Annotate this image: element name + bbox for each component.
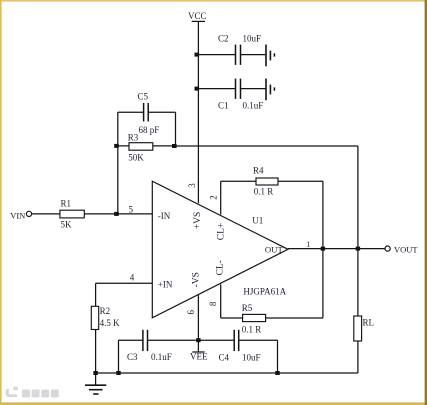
- svg-text:R1: R1: [61, 199, 72, 209]
- svg-text:U1: U1: [252, 216, 263, 226]
- wire bottom ground rail: [96, 372, 358, 374]
- svg-text:R2: R2: [100, 306, 111, 316]
- resistor RL: [354, 316, 362, 341]
- svg-text:RL: RL: [363, 317, 375, 327]
- junction VEE cap rail: [196, 338, 200, 342]
- border frame left: [0, 0, 2, 405]
- svg-text:10uF: 10uF: [243, 34, 262, 44]
- terminal VOUT circle: [385, 246, 390, 251]
- wire output to VOUT: [288, 248, 385, 250]
- wire R3 horizontal: [118, 145, 176, 147]
- resistor R4: [256, 178, 278, 185]
- svg-text:C4: C4: [219, 353, 230, 363]
- wire R2 vertical bottom: [95, 330, 97, 374]
- svg-text:VCC: VCC: [188, 11, 207, 21]
- svg-text:C5: C5: [138, 92, 149, 102]
- wire C1 branch right to ground: [241, 88, 266, 90]
- svg-text:0.1uF: 0.1uF: [243, 101, 264, 111]
- wire C5 top rail left: [118, 111, 144, 113]
- resistor R5: [243, 314, 266, 321]
- svg-text:VEE: VEE: [190, 352, 208, 362]
- resistor R2: [91, 306, 98, 329]
- junction VIN R1 node: [114, 212, 119, 216]
- wire C3 line left: [119, 339, 143, 341]
- wire pin 4 horizontal: [96, 282, 153, 284]
- capacitor C2 plates: [235, 45, 237, 65]
- svg-text:HJGPA61A: HJGPA61A: [243, 287, 286, 297]
- svg-text:-VS: -VS: [191, 272, 201, 287]
- wire decoupling riser left: [118, 340, 120, 373]
- svg-text:VIN: VIN: [10, 211, 25, 221]
- svg-text:C3: C3: [127, 352, 138, 362]
- svg-text:R5: R5: [242, 303, 253, 313]
- svg-text:2: 2: [209, 195, 219, 200]
- wire C4 riser right: [277, 340, 279, 373]
- svg-text:5K: 5K: [61, 219, 73, 229]
- wire RL vertical: [357, 249, 359, 373]
- wire C5 top rail right: [148, 111, 175, 113]
- wire pin 6 VEE vertical: [197, 294, 199, 352]
- wire feedback horizontal: [176, 145, 358, 147]
- svg-text:4.5 K: 4.5 K: [100, 318, 121, 328]
- svg-text:68 pF: 68 pF: [139, 125, 160, 135]
- svg-text:OUT: OUT: [265, 244, 284, 254]
- svg-text:R3: R3: [128, 133, 139, 143]
- capacitor C5 plates: [143, 103, 145, 122]
- svg-text:0.1uF: 0.1uF: [151, 352, 172, 362]
- svg-text:+IN: +IN: [158, 279, 173, 289]
- svg-text:0.1 R: 0.1 R: [242, 324, 262, 334]
- border frame top: [0, 0, 427, 2]
- junction C2 tap: [195, 53, 200, 57]
- junction cap riser bottom: [116, 371, 120, 375]
- junction R3 left: [114, 144, 119, 148]
- svg-text:5: 5: [129, 205, 134, 215]
- wire C4 right segment: [239, 339, 278, 341]
- svg-text:VOUT: VOUT: [394, 244, 418, 254]
- svg-text:C1: C1: [218, 101, 229, 111]
- resistor R1: [60, 210, 84, 218]
- wire C2 branch right to ground: [241, 54, 266, 56]
- junction R3 right feedback: [172, 144, 177, 148]
- capacitor C3 plates: [142, 330, 144, 351]
- svg-text:+VS: +VS: [193, 212, 203, 230]
- border frame right: [425, 0, 427, 405]
- svg-text:1: 1: [306, 240, 310, 249]
- wire R4 rail: [221, 180, 323, 182]
- wire C3 to C4 segment: [148, 339, 234, 341]
- wire R2 vertical top: [95, 283, 97, 306]
- svg-text:CL-: CL-: [216, 260, 226, 275]
- resistor R3: [129, 143, 153, 151]
- wire rail right vertical: [322, 181, 324, 318]
- wire feedback vertical drop: [357, 146, 359, 249]
- svg-text:CL+: CL+: [217, 223, 227, 241]
- junction C4 riser bottom: [275, 371, 279, 375]
- wire ground stub: [95, 373, 97, 385]
- svg-text:8: 8: [208, 301, 218, 306]
- svg-text:4: 4: [130, 273, 135, 283]
- ground symbol bottom: [85, 385, 106, 394]
- wire loop right vertical: [175, 112, 177, 146]
- wire VIN to pin 5: [32, 213, 153, 215]
- wire C2 branch left: [198, 54, 235, 56]
- svg-text:C2: C2: [218, 34, 229, 44]
- junction rail output: [321, 247, 325, 251]
- svg-text:50K: 50K: [128, 153, 144, 163]
- svg-text:3: 3: [187, 183, 197, 188]
- svg-text:0.1 R: 0.1 R: [254, 187, 274, 197]
- junction C1 tap: [195, 87, 200, 91]
- power VEE bar: [192, 351, 204, 353]
- svg-text:10uF: 10uF: [242, 353, 261, 363]
- capacitor C4 plates: [233, 330, 235, 351]
- svg-text:R4: R4: [253, 165, 264, 175]
- power VCC bar: [192, 20, 205, 22]
- wire loop left vertical: [117, 112, 119, 214]
- ground symbol top for C2: [266, 45, 274, 67]
- junction feedback output RL: [356, 247, 360, 251]
- wire C1 branch left: [198, 88, 235, 90]
- terminal VIN circle: [26, 211, 31, 216]
- border frame bottom: [0, 402, 427, 405]
- svg-text:6: 6: [186, 310, 196, 315]
- ground symbol top for C1: [266, 79, 274, 101]
- wire R5 rail: [221, 317, 323, 319]
- junction ground node R2: [93, 371, 97, 375]
- wire VCC vertical rail to pin 3: [197, 21, 199, 203]
- op-amp U1 triangle: [152, 181, 288, 318]
- svg-text:-IN: -IN: [158, 211, 171, 221]
- watermark bottom left: [5, 387, 58, 398]
- wire pin 8 vertical: [220, 284, 222, 318]
- capacitor C1 plates: [235, 79, 237, 99]
- wire pin 2 vertical: [220, 181, 222, 214]
